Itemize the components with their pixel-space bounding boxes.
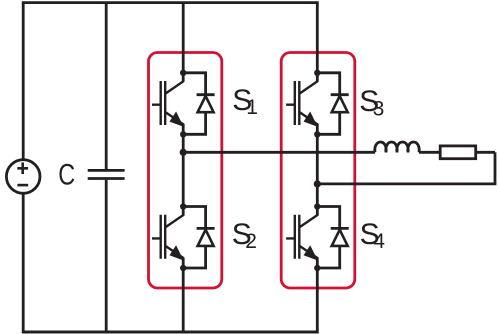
svg-text:C: C [58, 158, 75, 191]
wire: left leg lower (S2 to bottom bus) [182, 258, 185, 332]
wire: load return line to node B [317, 182, 496, 185]
node: S3 emitter junction [314, 131, 320, 137]
wire: right vertical drop of load loop [494, 152, 497, 184]
transistor S4 (IGBT) [286, 207, 317, 269]
transistor S3 (IGBT) [286, 73, 317, 135]
wire: right leg lower (S4 to bottom bus) [316, 258, 319, 332]
wire: resistor to right drop [476, 151, 495, 154]
node: S1 collector junction [180, 70, 186, 76]
node: S2 emitter junction [180, 265, 186, 271]
wire: capacitor branch lower [105, 180, 108, 332]
node: S4 collector junction [314, 203, 320, 209]
diode D3 (anti-parallel with S3) [317, 73, 348, 135]
wire: left leg S1-emitter to S2-collector (through node A) [182, 124, 185, 216]
wire: left branch upper (source to top bus) [22, 3, 25, 160]
wire: bottom DC bus [22, 331, 319, 334]
svg-text:4: 4 [373, 230, 385, 253]
inductor L (load) [375, 142, 419, 152]
voltage source V1 [6, 160, 40, 194]
wire: inductor to resistor [419, 151, 440, 154]
wire: left leg upper (top bus to S1) [182, 3, 185, 82]
wire: output line from node A to inductor [183, 151, 375, 154]
diode D1 (anti-parallel with S1) [183, 73, 214, 135]
leg module outline (S3/S4 red box) [281, 53, 355, 289]
wire: capacitor branch upper [105, 3, 108, 170]
svg-text:3: 3 [373, 98, 385, 121]
svg-text:2: 2 [245, 230, 257, 253]
node B: right leg output junction [314, 180, 321, 187]
transistor S2 (IGBT) [152, 207, 183, 269]
svg-text:1: 1 [246, 96, 258, 119]
capacitor C [88, 170, 125, 178]
node: S3 collector junction [314, 70, 320, 76]
node: S2 collector junction [180, 203, 186, 209]
diode D4 (anti-parallel with S4) [317, 207, 348, 269]
leg module outline (S1/S2 red box) [149, 53, 222, 289]
wire: right leg upper (top bus to S3) [316, 3, 319, 82]
wire: right leg S3-emitter to S4-collector (through node B) [316, 124, 319, 216]
diode D2 (anti-parallel with S2) [183, 207, 214, 269]
wire: left branch lower (source to bottom bus) [22, 193, 25, 332]
node: S1 emitter junction [180, 131, 186, 137]
resistor R (load) [440, 146, 476, 159]
label C [58, 158, 75, 191]
node A: left leg output junction [180, 149, 187, 156]
wire: top DC bus [22, 1, 319, 4]
node: S4 emitter junction [314, 265, 320, 271]
transistor S1 (IGBT) [152, 73, 183, 135]
